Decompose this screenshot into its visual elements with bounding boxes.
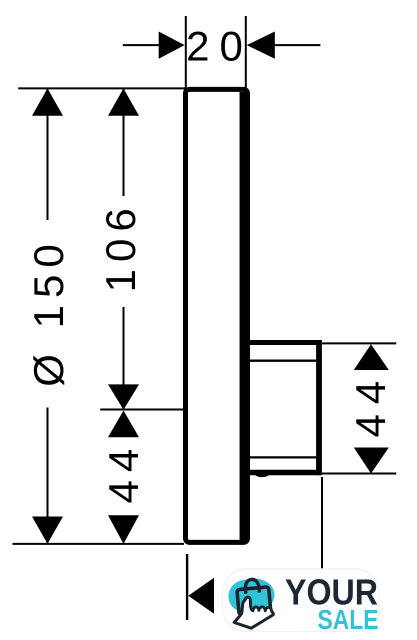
dimension Ø150 line lower segment <box>47 408 49 544</box>
dimension 20: left line <box>123 44 162 46</box>
logo hand <box>234 597 273 628</box>
plate outline <box>186 89 248 542</box>
body bottom edge <box>248 470 319 476</box>
dimension 106 line lower segment <box>123 307 125 410</box>
body bottom notch <box>256 475 268 476</box>
svg-text:106: 106 <box>97 201 144 292</box>
extension line top (for 20) right <box>245 16 247 94</box>
extension line horizontal top (plate top plane) <box>18 87 185 89</box>
svg-text:20: 20 <box>186 23 253 70</box>
logo shopping bag <box>236 578 271 615</box>
svg-text:44: 44 <box>100 441 147 504</box>
tick line at 106/44 boundary <box>100 409 183 411</box>
body inner line upper <box>250 360 317 362</box>
svg-text:44: 44 <box>347 371 394 438</box>
svg-text:Ø 150: Ø 150 <box>25 237 72 386</box>
arrow up (44 top) <box>108 411 139 438</box>
plate wall-side edge line <box>240 92 246 540</box>
plate P1 (escutcheon side view) <box>186 89 248 542</box>
svg-text:SALE: SALE <box>318 604 379 635</box>
arrow down (right 44 bottom) <box>354 448 389 474</box>
dimension 106 line upper segment <box>123 88 125 196</box>
arrow up (Ø150 top) <box>32 88 63 115</box>
body inner line lower <box>250 456 317 458</box>
extension line below box right edge <box>321 477 323 569</box>
logo card <box>223 569 380 632</box>
arrow down (44 bottom) <box>108 515 139 543</box>
body right edge <box>316 340 322 475</box>
extension line bottom left (plate left plane, below) <box>186 554 188 620</box>
extension line right bottom (box bottom plane) <box>322 473 396 475</box>
arrow up (right 44 top) <box>354 344 389 370</box>
arrow down (Ø150 bottom) <box>32 517 63 544</box>
body top edge <box>248 340 319 345</box>
arrow right-pointing (20 left) <box>159 32 185 59</box>
arrow down (106 bottom) <box>108 384 139 409</box>
extension line right top (box top plane) <box>322 342 396 344</box>
valve body B1 (functional unit box) <box>248 340 319 476</box>
dimension Ø150 line upper segment <box>47 88 49 220</box>
extension line horizontal bottom (plate bottom plane) <box>13 543 185 545</box>
arrow left-pointing (20 right) <box>247 32 275 59</box>
arrow left-pointing (bottom dim) <box>188 578 214 614</box>
dimension 20: right line <box>271 44 320 46</box>
logo blob <box>228 578 274 613</box>
extension line top (for 20) left <box>185 16 187 94</box>
arrow up (106 top) <box>108 88 139 115</box>
